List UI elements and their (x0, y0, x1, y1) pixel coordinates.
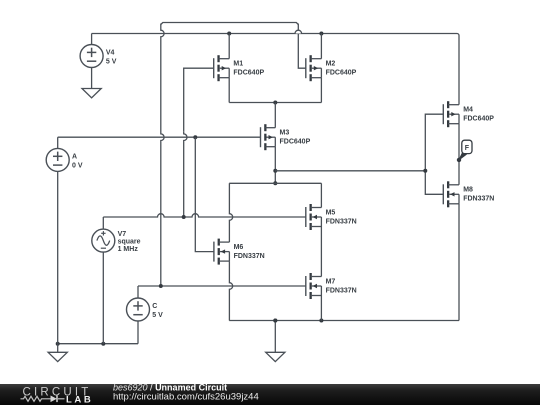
flag F (output node) (457, 140, 472, 162)
wire: W1 right vertical to M2 gate (298, 24, 306, 69)
CircuitLab logo (21, 387, 94, 405)
wire: M8 source down right rail (458, 204, 460, 321)
ground (266, 352, 285, 361)
wire: top loop C-gate rail (W1) (161, 23, 298, 25)
wire: M2 drain to +5V rail (320, 34, 322, 59)
svg-text:M5: M5 (326, 209, 336, 216)
wire: V7 top lead (102, 217, 104, 229)
wire: M1 source drop (228, 78, 230, 103)
svg-text:LAB: LAB (66, 394, 93, 405)
pmos M2 (FDC640P) (306, 55, 357, 81)
wire: A ground stub (57, 344, 59, 353)
svg-text:5 V: 5 V (152, 312, 163, 319)
voltage source V4 (80, 45, 117, 68)
wire: left ground rail (58, 343, 138, 345)
nmos M5 (FDN337N) (306, 204, 357, 230)
svg-text:FDC640P: FDC640P (326, 70, 357, 77)
wire: M4 drain from +5V rail (458, 36, 460, 105)
svg-text:M8: M8 (463, 187, 473, 194)
wire: ground stub on source rail (274, 321, 276, 353)
svg-text:1 MHz: 1 MHz (118, 246, 139, 253)
svg-text:C: C (152, 303, 157, 310)
svg-text:FDC640P: FDC640P (280, 139, 311, 146)
wire: M6 source drop (229, 261, 232, 320)
wire: C bottom lead (137, 321, 139, 344)
pmos M1 (FDC640P) (214, 55, 265, 81)
wire: V7 bottom lead (102, 252, 104, 344)
svg-text:V4: V4 (106, 50, 115, 57)
svg-text:0 V: 0 V (72, 162, 83, 169)
svg-text:FDN337N: FDN337N (326, 287, 357, 294)
wire: bottom source rail (229, 320, 459, 322)
wire: V4 bottom lead (91, 68, 93, 89)
wire: V7 to M5 gate (103, 214, 305, 217)
pmos M4 (FDC640P) (443, 101, 494, 127)
svg-text:FDC640P: FDC640P (463, 116, 494, 123)
wire: M1/M2 common source rail (229, 102, 321, 104)
pmos M3 (FDC640P) (261, 124, 311, 150)
svg-text:V7: V7 (118, 231, 127, 238)
nmos M8 (FDN337N) (443, 181, 494, 207)
svg-text:FDN337N: FDN337N (463, 196, 494, 203)
svg-text:FDN337N: FDN337N (326, 218, 357, 225)
svg-text:FDC640P: FDC640P (233, 70, 264, 77)
svg-text:F: F (465, 145, 470, 152)
wire: M3 drain up to source rail (274, 103, 276, 128)
wire: C to M7 gate (138, 285, 306, 287)
wire: V4 top lead (91, 34, 93, 45)
wire: W2 hop bump over it by W1R handled on horizontal (295, 30, 302, 33)
wire: C top lead (137, 286, 139, 298)
nmos M6 (FDN337N) (214, 239, 265, 265)
voltage source A (46, 148, 83, 171)
wire: M3 source vertical (274, 147, 276, 184)
svg-text:square: square (118, 239, 141, 246)
wire: A bottom lead (57, 171, 59, 343)
wire: M3 source to M4/M8 gate bus (275, 170, 425, 172)
svg-text:M6: M6 (234, 244, 244, 251)
wire: node rail M3src/M5 drain/M6 drain (229, 182, 321, 184)
wire: M6 drain riser (229, 183, 232, 242)
footer text (113, 382, 259, 402)
svg-text:M2: M2 (326, 61, 336, 68)
ground (82, 89, 101, 98)
svg-text:FDN337N: FDN337N (234, 253, 265, 260)
wire: A source to M3 gate (58, 136, 261, 138)
wire: M5 drain riser (320, 183, 322, 207)
wire: M2 source drop (320, 78, 322, 103)
voltage source V7 (92, 229, 141, 253)
wire: M5 source to M7 drain (320, 227, 322, 277)
wire: M1 gate bus from gate down to V7 net (184, 68, 214, 131)
wire: A bus down to M6 gate (195, 137, 214, 251)
wire: M4 source / M8 drain / F node (458, 124, 460, 185)
svg-text:M3: M3 (280, 130, 290, 137)
wire: W1 left vertical bus down to C net (161, 24, 164, 287)
svg-text:M1: M1 (233, 61, 243, 68)
svg-text:A: A (72, 153, 77, 160)
wire: M7 source drop (320, 296, 322, 321)
svg-text:M7: M7 (326, 278, 336, 285)
wire: M1 drain to +5V rail (228, 34, 230, 59)
nmos M7 (FDN337N) (306, 273, 357, 299)
svg-text:M4: M4 (463, 107, 473, 114)
wire: +5V rail from V4 (W2) (92, 33, 457, 35)
wire: M4/M8 gate bus (425, 114, 443, 194)
voltage source C (127, 298, 164, 321)
svg-text:5 V: 5 V (106, 58, 117, 65)
svg-text:http://circuitlab.com/cufs26u3: http://circuitlab.com/cufs26u39jz44 (113, 392, 259, 403)
ground (48, 352, 67, 361)
wire: A top lead (57, 137, 59, 148)
